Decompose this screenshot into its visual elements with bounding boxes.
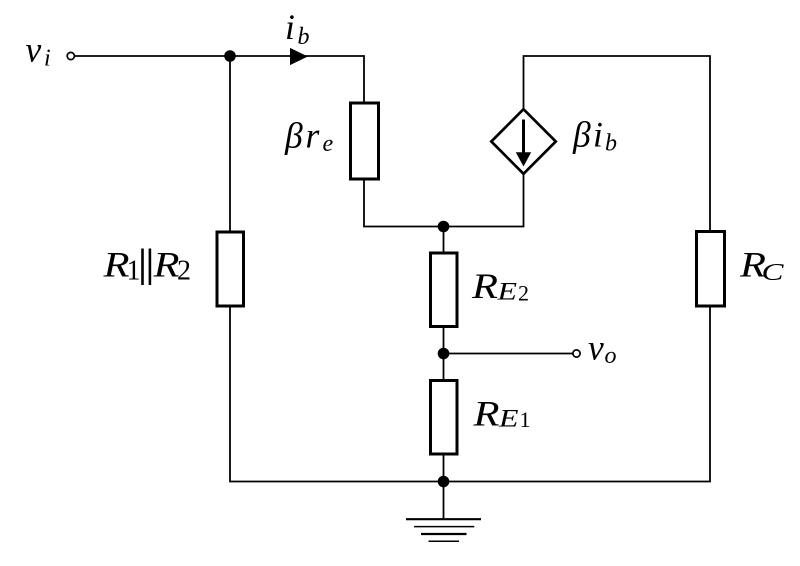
- svg-text:R: R: [152, 245, 180, 285]
- svg-text:β: β: [572, 115, 591, 155]
- svg-text:2: 2: [177, 255, 191, 286]
- svg-text:v: v: [26, 30, 42, 70]
- svg-text:E: E: [496, 279, 517, 306]
- svg-text:β: β: [284, 116, 303, 156]
- svg-text:1: 1: [127, 255, 141, 286]
- svg-text:v: v: [588, 328, 604, 368]
- svg-text:i: i: [285, 7, 295, 47]
- svg-text:e: e: [323, 131, 334, 157]
- svg-text:r: r: [306, 116, 320, 156]
- svg-text:b: b: [605, 131, 617, 157]
- svg-text:b: b: [298, 24, 310, 50]
- svg-text:R: R: [471, 266, 499, 306]
- svg-text:1: 1: [520, 407, 531, 432]
- svg-text:i: i: [44, 46, 51, 72]
- svg-text:2: 2: [518, 281, 529, 306]
- svg-text:R: R: [472, 394, 500, 434]
- svg-text:o: o: [605, 343, 617, 369]
- svg-text:E: E: [498, 406, 519, 433]
- svg-text:i: i: [593, 115, 603, 155]
- svg-text:C: C: [762, 260, 785, 286]
